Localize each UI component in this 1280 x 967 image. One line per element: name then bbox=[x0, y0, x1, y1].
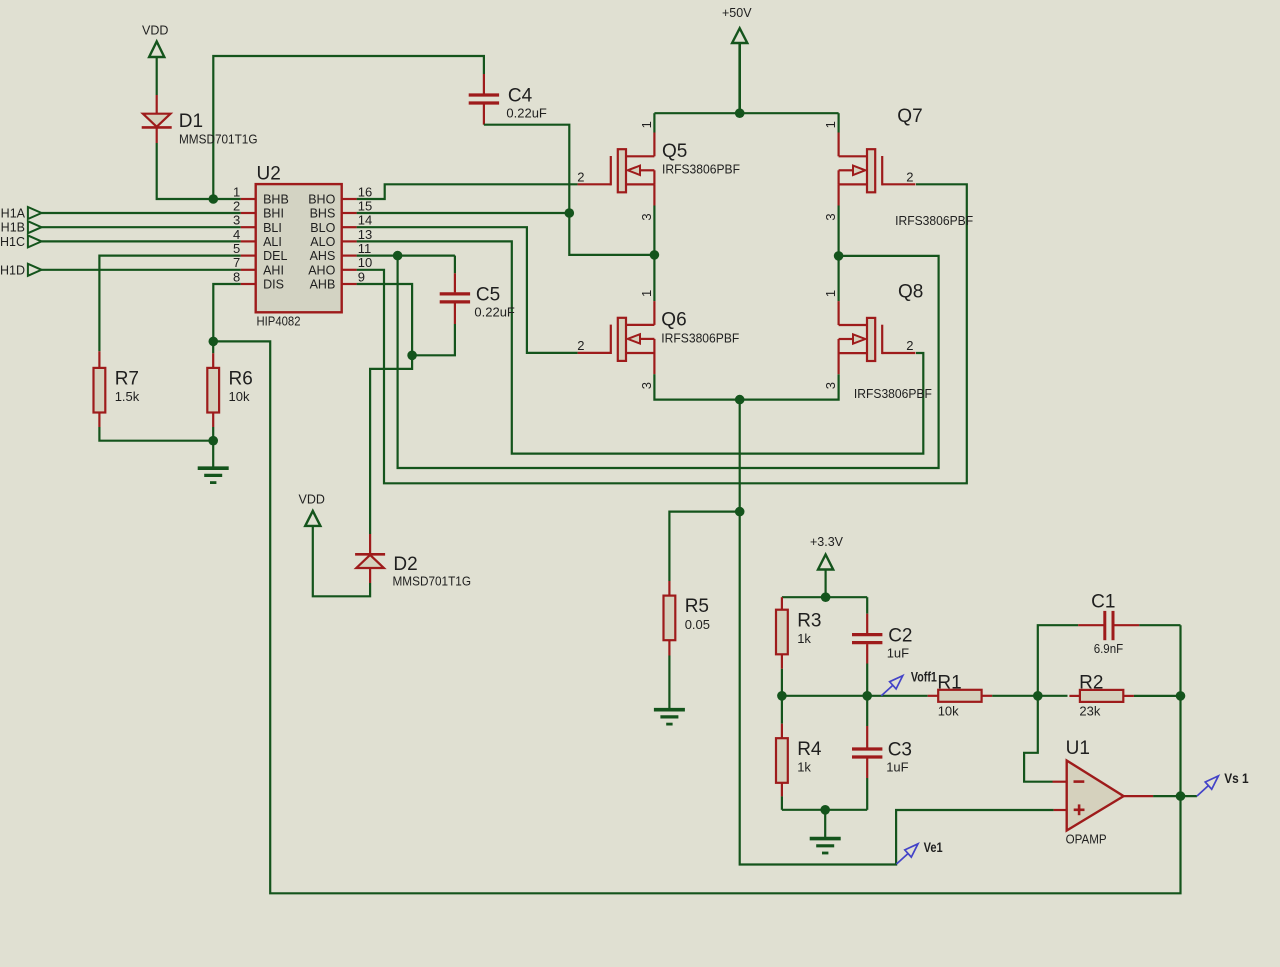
svg-text:BHS: BHS bbox=[310, 207, 336, 221]
svg-text:16: 16 bbox=[358, 184, 372, 199]
svg-text:0.22uF: 0.22uF bbox=[474, 305, 515, 320]
svg-text:AHB: AHB bbox=[310, 278, 336, 292]
svg-text:ALI: ALI bbox=[263, 235, 282, 249]
svg-text:H1C: H1C bbox=[0, 235, 25, 249]
svg-text:15: 15 bbox=[358, 198, 372, 213]
svg-text:MMSD701T1G: MMSD701T1G bbox=[393, 575, 472, 589]
svg-text:ALO: ALO bbox=[310, 235, 335, 249]
svg-text:1: 1 bbox=[233, 184, 240, 199]
svg-text:Q5: Q5 bbox=[662, 141, 687, 162]
svg-text:AHS: AHS bbox=[310, 249, 336, 263]
svg-text:1uF: 1uF bbox=[886, 760, 908, 775]
svg-text:C2: C2 bbox=[888, 625, 912, 646]
svg-text:7: 7 bbox=[233, 255, 240, 270]
svg-text:10k: 10k bbox=[229, 389, 250, 404]
svg-text:R7: R7 bbox=[115, 369, 139, 390]
svg-text:R2: R2 bbox=[1079, 672, 1103, 693]
svg-text:8: 8 bbox=[233, 269, 240, 284]
svg-text:1k: 1k bbox=[797, 631, 811, 646]
svg-text:2: 2 bbox=[577, 338, 584, 353]
svg-text:11: 11 bbox=[358, 241, 372, 256]
svg-text:D1: D1 bbox=[179, 111, 203, 132]
svg-text:+3.3V: +3.3V bbox=[810, 535, 844, 549]
svg-text:H1D: H1D bbox=[0, 263, 25, 277]
svg-text:R4: R4 bbox=[797, 739, 822, 760]
svg-text:BHB: BHB bbox=[263, 193, 289, 207]
svg-text:R5: R5 bbox=[685, 596, 709, 617]
svg-text:3: 3 bbox=[823, 213, 838, 220]
svg-text:Voff1: Voff1 bbox=[911, 670, 937, 685]
svg-text:MMSD701T1G: MMSD701T1G bbox=[179, 132, 258, 146]
svg-text:C3: C3 bbox=[888, 740, 912, 761]
svg-text:R3: R3 bbox=[797, 610, 821, 631]
svg-text:10k: 10k bbox=[938, 704, 959, 719]
svg-text:2: 2 bbox=[906, 338, 913, 353]
svg-text:R1: R1 bbox=[937, 672, 961, 693]
svg-text:IRFS3806PBF: IRFS3806PBF bbox=[661, 331, 739, 345]
svg-text:14: 14 bbox=[358, 213, 372, 228]
svg-text:3: 3 bbox=[639, 213, 654, 220]
svg-text:AHI: AHI bbox=[263, 263, 284, 277]
svg-text:3: 3 bbox=[823, 382, 838, 389]
svg-text:AHO: AHO bbox=[308, 263, 335, 277]
svg-text:1: 1 bbox=[639, 290, 654, 297]
svg-text:IRFS3806PBF: IRFS3806PBF bbox=[895, 214, 973, 228]
svg-text:9: 9 bbox=[358, 269, 365, 284]
svg-text:0.22uF: 0.22uF bbox=[506, 106, 547, 121]
svg-text:10: 10 bbox=[358, 255, 372, 270]
svg-text:Q7: Q7 bbox=[897, 106, 922, 127]
svg-text:DIS: DIS bbox=[263, 278, 284, 292]
svg-text:0.05: 0.05 bbox=[685, 617, 710, 632]
svg-text:U2: U2 bbox=[257, 164, 281, 185]
svg-text:VDD: VDD bbox=[142, 24, 168, 38]
svg-text:5: 5 bbox=[233, 241, 240, 256]
svg-text:2: 2 bbox=[906, 170, 913, 185]
svg-text:H1B: H1B bbox=[1, 221, 25, 235]
svg-text:Ve1: Ve1 bbox=[924, 840, 943, 855]
svg-text:D2: D2 bbox=[393, 554, 417, 575]
svg-text:OPAMP: OPAMP bbox=[1066, 833, 1107, 847]
svg-text:+50V: +50V bbox=[722, 6, 752, 20]
svg-text:Q8: Q8 bbox=[898, 282, 923, 303]
svg-text:C5: C5 bbox=[476, 285, 500, 306]
svg-text:C1: C1 bbox=[1091, 592, 1115, 613]
svg-text:2: 2 bbox=[577, 170, 584, 185]
svg-text:IRFS3806PBF: IRFS3806PBF bbox=[854, 387, 932, 401]
svg-text:23k: 23k bbox=[1079, 704, 1100, 719]
svg-text:1: 1 bbox=[639, 121, 654, 128]
svg-text:Q6: Q6 bbox=[661, 310, 686, 331]
svg-text:4: 4 bbox=[233, 227, 240, 242]
svg-text:BLI: BLI bbox=[263, 221, 282, 235]
svg-text:DEL: DEL bbox=[263, 249, 287, 263]
svg-text:1: 1 bbox=[823, 121, 838, 128]
svg-text:6.9nF: 6.9nF bbox=[1094, 641, 1124, 656]
svg-text:BHI: BHI bbox=[263, 207, 284, 221]
svg-text:13: 13 bbox=[358, 227, 372, 242]
svg-text:1uF: 1uF bbox=[887, 645, 909, 660]
svg-text:BLO: BLO bbox=[310, 221, 335, 235]
svg-text:BHO: BHO bbox=[308, 193, 335, 207]
svg-text:IRFS3806PBF: IRFS3806PBF bbox=[662, 163, 740, 177]
svg-text:R6: R6 bbox=[229, 369, 253, 390]
svg-text:1: 1 bbox=[823, 290, 838, 297]
svg-text:1.5k: 1.5k bbox=[115, 389, 140, 404]
svg-text:3: 3 bbox=[639, 382, 654, 389]
svg-text:U1: U1 bbox=[1066, 738, 1090, 759]
svg-text:VDD: VDD bbox=[299, 493, 325, 507]
svg-text:HIP4082: HIP4082 bbox=[257, 315, 301, 329]
svg-text:H1A: H1A bbox=[1, 207, 26, 221]
svg-text:C4: C4 bbox=[508, 86, 533, 107]
svg-text:Vs 1: Vs 1 bbox=[1224, 771, 1249, 786]
svg-text:2: 2 bbox=[233, 198, 240, 213]
svg-text:1k: 1k bbox=[797, 759, 811, 774]
svg-text:3: 3 bbox=[233, 213, 240, 228]
